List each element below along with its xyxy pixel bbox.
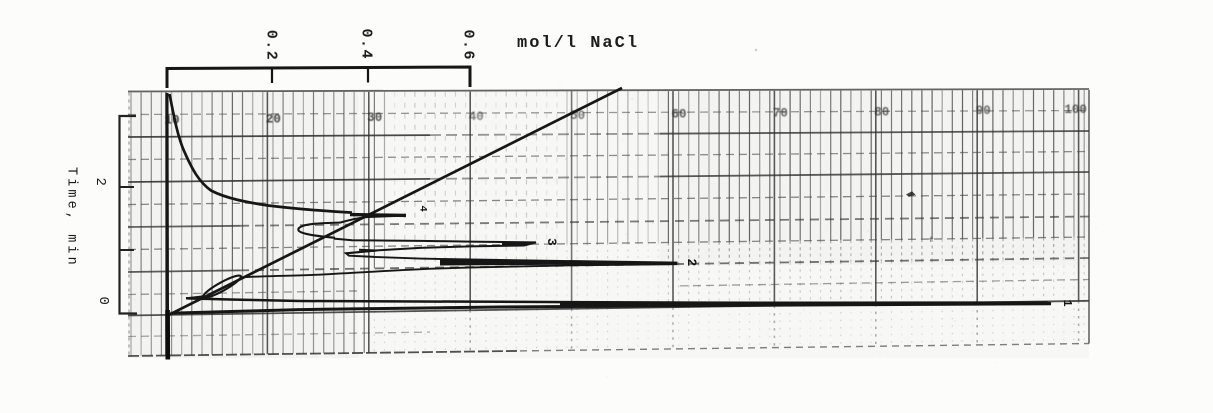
svg-text:2: 2 <box>92 178 108 186</box>
valley loop between peaks 3 and 4 <box>298 223 340 238</box>
peak 3 merged tip fill <box>502 242 536 246</box>
svg-text:4: 4 <box>417 206 429 212</box>
dust speck <box>755 49 758 52</box>
peak 3 <box>334 239 536 254</box>
svg-text:100: 100 <box>1064 103 1087 117</box>
svg-text:1: 1 <box>1060 300 1074 307</box>
svg-text:80: 80 <box>874 105 889 119</box>
svg-text:30: 30 <box>367 111 382 125</box>
grid: vertical minor lines <box>131 90 1084 356</box>
peak 2 leading edge and return <box>186 257 677 298</box>
svg-text:20: 20 <box>266 112 281 126</box>
svg-text:0.2: 0.2 <box>263 30 280 62</box>
grid paper background wash <box>128 90 1089 358</box>
baseline stem below injection <box>165 310 170 360</box>
stray scan mark (arrow-like) <box>906 191 916 197</box>
peak 1 leading edge <box>171 304 1052 314</box>
peak 2 merged tip fill <box>440 259 677 265</box>
svg-text:3: 3 <box>544 238 559 246</box>
svg-text:mol/l NaCl: mol/l NaCl <box>517 34 639 53</box>
svg-text:60: 60 <box>671 108 686 122</box>
left bracket axis (time scale) <box>120 116 138 314</box>
grid: horizontal dashed mid lines <box>128 111 1089 337</box>
svg-text:0.6: 0.6 <box>460 30 477 62</box>
svg-text:0: 0 <box>95 297 111 305</box>
svg-text:70: 70 <box>773 107 788 121</box>
detector decay curve after last peak <box>170 94 353 213</box>
peak 1 merged tip fill <box>560 302 1051 307</box>
svg-text:2: 2 <box>684 259 699 267</box>
stray scan mark (small t) <box>929 237 933 242</box>
grid scale numbers 10..100 <box>164 103 1086 128</box>
grid: vertical major lines <box>129 90 1089 356</box>
grid: bottom dashed boundary line <box>128 351 520 356</box>
peak 4 tip dash <box>350 213 406 217</box>
peak 4 leading edge <box>340 216 398 223</box>
chart zero heavy vertical line / recorder baseline <box>166 93 170 311</box>
svg-text:40: 40 <box>469 110 484 124</box>
peak 1 return edge <box>186 298 1051 303</box>
svg-text:0.4: 0.4 <box>358 29 375 61</box>
grid: horizontal major lines <box>128 89 1089 316</box>
zig step between peaks 2 and 3 <box>346 250 377 257</box>
top bracket axis (mol/l NaCl scale) <box>167 67 470 88</box>
NaCl gradient diagonal line <box>169 88 622 315</box>
svg-text:Time, min: Time, min <box>64 167 79 268</box>
svg-text:90: 90 <box>976 104 991 118</box>
pen loop along gradient line at start of peak 2 <box>201 273 243 301</box>
